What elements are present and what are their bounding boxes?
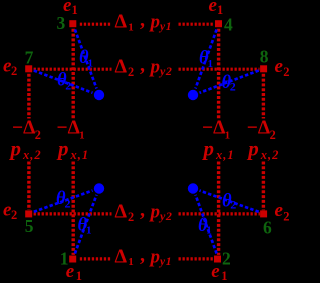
svg-text:e: e <box>275 56 284 77</box>
node 1 (red square) <box>69 256 76 263</box>
svg-text:−Δ: −Δ <box>202 118 225 139</box>
wire mid-left column (node3-node1) <box>71 29 74 255</box>
svg-text:p: p <box>56 137 69 161</box>
svg-text:−Δ: −Δ <box>12 118 35 139</box>
svg-text:e: e <box>275 200 284 221</box>
svg-text:4: 4 <box>224 14 233 34</box>
svg-text:8: 8 <box>260 46 269 66</box>
svg-text:3: 3 <box>57 13 66 33</box>
svg-text:p: p <box>246 137 258 161</box>
label e2 right of node 8 <box>275 56 290 79</box>
svg-text:x,1: x,1 <box>215 148 235 162</box>
label Delta2 , py2 on second row <box>115 54 173 79</box>
svg-text:,: , <box>140 9 145 31</box>
label -Delta2 on left column <box>12 118 41 143</box>
label Delta1 , py1 on top bond <box>115 9 173 33</box>
wire hopping node6 to site BR <box>200 191 259 212</box>
label theta2 TR <box>222 73 236 94</box>
svg-text:p: p <box>149 57 161 78</box>
svg-text:7: 7 <box>25 48 34 68</box>
label theta2 BR <box>222 192 236 212</box>
label theta1 TR <box>199 49 213 71</box>
label e1 above node 4 <box>209 0 224 17</box>
svg-text:1: 1 <box>79 130 85 142</box>
svg-text:Δ: Δ <box>115 245 128 267</box>
label theta1 BR <box>198 216 212 237</box>
label e1 below node 1 <box>66 261 82 283</box>
svg-text:y1: y1 <box>158 256 172 268</box>
node 5 (red square) <box>25 210 32 217</box>
label px,1 on mid-left column <box>56 137 89 163</box>
label Delta1 , py1 on bottom bond <box>115 244 173 268</box>
svg-text:p: p <box>149 201 161 222</box>
svg-text:2: 2 <box>11 64 17 78</box>
svg-text:y2: y2 <box>158 64 173 78</box>
site BR (blue circle) <box>188 183 198 193</box>
svg-text:2: 2 <box>222 249 231 269</box>
label -Delta1 on mid-left column <box>57 118 85 142</box>
svg-text:Δ: Δ <box>115 200 128 222</box>
svg-text:,: , <box>140 199 145 221</box>
svg-text:p: p <box>149 12 161 33</box>
label px,2 on left column <box>9 137 42 163</box>
svg-text:p: p <box>149 246 161 267</box>
node 4 (red square) <box>215 20 222 27</box>
site TL (blue circle) <box>94 90 104 100</box>
label -Delta2 on right column <box>247 118 276 143</box>
wire hopping node8 to site TR <box>200 71 259 93</box>
svg-text:2: 2 <box>65 196 71 210</box>
wire hopping node7 to site TL <box>34 71 93 93</box>
svg-text:1: 1 <box>206 225 212 237</box>
wire hopping node3 to site TL (blue dashed) <box>75 30 97 89</box>
svg-text:Δ: Δ <box>115 11 128 33</box>
svg-text:x,2: x,2 <box>22 148 42 162</box>
node 7 (red square) <box>25 65 32 72</box>
svg-text:2: 2 <box>128 210 134 224</box>
svg-text:1: 1 <box>217 3 223 17</box>
wire top bond row (node3-node4) <box>80 23 214 26</box>
label theta1 BL <box>78 216 92 237</box>
label theta1 TL <box>79 48 93 70</box>
svg-text:p: p <box>202 137 215 161</box>
svg-text:y1: y1 <box>158 21 172 33</box>
svg-text:1: 1 <box>86 225 92 237</box>
svg-text:1: 1 <box>208 58 214 70</box>
svg-text:1: 1 <box>72 3 78 17</box>
svg-text:−Δ: −Δ <box>247 118 270 139</box>
svg-text:1: 1 <box>60 249 69 269</box>
svg-text:1: 1 <box>88 58 94 70</box>
label px,1 on mid-right column <box>202 137 235 163</box>
svg-text:2: 2 <box>230 198 236 212</box>
wire bottom bond row (node1-node2) <box>80 257 213 260</box>
site TR (blue circle) <box>188 90 198 100</box>
svg-text:2: 2 <box>35 128 41 142</box>
node 8 (red square) <box>260 65 267 72</box>
svg-text:2: 2 <box>65 78 71 92</box>
svg-text:p: p <box>9 137 22 161</box>
node 2 (red square) <box>214 256 221 263</box>
wire hopping node4 to site TR <box>196 30 217 89</box>
svg-text:y2: y2 <box>158 209 173 223</box>
label e2 left of node 7 <box>3 56 17 78</box>
svg-text:1: 1 <box>225 130 231 142</box>
wire left column (node7-node5) <box>27 74 30 210</box>
wire right column (node8-node6) <box>262 74 265 211</box>
svg-text:x,2: x,2 <box>260 148 280 162</box>
label theta2 BL <box>56 189 71 210</box>
svg-text:2: 2 <box>283 209 289 223</box>
svg-text:1: 1 <box>128 22 134 34</box>
node 6 (red square) <box>260 210 267 217</box>
svg-text:1: 1 <box>221 269 227 283</box>
site BL (blue circle) <box>94 183 104 193</box>
wire hopping node1 to site BL <box>75 195 97 254</box>
node 3 (red square) <box>69 20 76 27</box>
wire hopping node2 to site BR <box>196 195 217 254</box>
label px,2 on right column <box>246 137 279 163</box>
label e1 below node 2 <box>211 261 227 283</box>
svg-text:2: 2 <box>283 65 289 79</box>
svg-text:2: 2 <box>128 65 134 79</box>
svg-text:1: 1 <box>128 256 134 268</box>
svg-text:1: 1 <box>76 269 82 283</box>
svg-text:,: , <box>140 244 145 266</box>
label theta2 TL <box>57 71 71 93</box>
svg-text:−Δ: −Δ <box>57 118 80 139</box>
label e2 left of node 5 <box>3 200 17 222</box>
label e1 above node 3 <box>63 0 78 17</box>
svg-text:2: 2 <box>270 128 276 142</box>
wire mid-right column (node4-node2) <box>217 29 220 255</box>
label Delta2 , py2 on third row <box>115 199 173 224</box>
wire second row (node7-node8) <box>34 68 260 71</box>
svg-text:2: 2 <box>11 208 17 222</box>
svg-text:x,1: x,1 <box>70 148 90 162</box>
svg-text:e: e <box>211 261 220 282</box>
svg-text:2: 2 <box>230 80 236 94</box>
svg-text:5: 5 <box>25 216 34 236</box>
svg-text:,: , <box>140 54 145 76</box>
svg-text:Δ: Δ <box>115 56 128 78</box>
label e2 right of node 6 <box>275 200 290 223</box>
svg-text:6: 6 <box>263 217 272 237</box>
wire hopping node5 to site BL <box>34 191 93 212</box>
label -Delta1 on mid-right column <box>202 118 230 142</box>
wire third row (node5-node6) <box>34 212 260 215</box>
